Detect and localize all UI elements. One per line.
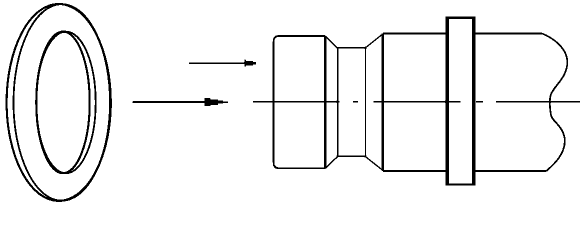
flange bottom edge	[446, 184, 476, 186]
body top edge right of flange	[475, 33, 542, 35]
centerline dash 1	[253, 101, 340, 103]
groove bottom edge	[337, 155, 366, 157]
chamfer slant bottom-left of groove	[326, 156, 338, 168]
break wave line	[542, 34, 567, 171]
flange left vertical	[445, 17, 448, 185]
upper arrow head	[244, 60, 256, 67]
flange right vertical	[472, 17, 476, 185]
centerline dash 2	[373, 101, 460, 103]
upper arrow shaft	[189, 62, 245, 64]
o-ring outer back ellipse	[14, 4, 111, 201]
lower arrow shaft	[133, 101, 205, 103]
o-ring outer front ellipse	[7, 4, 111, 201]
slant groove to body bottom	[366, 157, 383, 171]
body bottom edge left of flange	[383, 170, 446, 172]
groove top edge	[337, 47, 366, 49]
groove left vertical	[337, 48, 339, 156]
slant groove to body top	[366, 34, 383, 48]
chamfer slant top-left of groove	[326, 37, 338, 49]
fitting nose outline	[274, 36, 326, 168]
lower arrow head	[205, 98, 228, 106]
centerline dot 1	[353, 101, 358, 103]
flange top edge	[446, 17, 476, 19]
nose shoulder vertical	[324, 36, 326, 168]
o-ring hole front ellipse	[36, 32, 89, 174]
body bottom edge right of flange	[475, 170, 546, 172]
groove right vertical	[365, 47, 367, 158]
centerline dash 3	[496, 101, 580, 103]
o-ring hole back ellipse	[36, 32, 95, 174]
body top edge left of flange	[383, 33, 446, 35]
centerline dot 2	[476, 101, 483, 103]
body step vertical	[382, 34, 384, 171]
